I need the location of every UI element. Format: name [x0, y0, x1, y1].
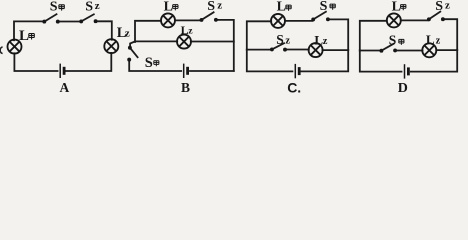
switch S yi (B) dots	[127, 18, 218, 62]
svg-text:S: S	[207, 0, 215, 14]
wire C left edge	[247, 21, 271, 49]
svg-text:z: z	[323, 36, 328, 47]
svg-text:D: D	[398, 81, 408, 96]
lamp L yi (C middle)	[309, 43, 323, 57]
wire B left edge upper	[135, 21, 161, 42]
switch S2 contact dots	[79, 19, 83, 23]
svg-text:L: L	[426, 32, 435, 47]
wire A top-left segment	[14, 21, 44, 40]
wire D top middle	[401, 19, 428, 21]
wire A bottom-right	[66, 53, 111, 71]
lamp L jia (C top)	[271, 14, 285, 28]
wire B middle branch right	[191, 41, 234, 43]
svg-text:L: L	[277, 0, 286, 15]
lamp L yi (D middle)	[422, 43, 436, 57]
wire C bottom-left	[247, 50, 293, 72]
svg-text:C.: C.	[287, 80, 301, 96]
wire A top-right segment	[96, 21, 112, 39]
switch S jia (C) dots	[270, 17, 330, 51]
wire D top-right	[444, 19, 458, 50]
wire B top middle	[175, 19, 201, 21]
svg-text:S: S	[435, 0, 443, 14]
svg-text:S: S	[145, 55, 153, 71]
svg-text:z: z	[436, 35, 441, 46]
wire B top-right	[217, 20, 234, 71]
switch S1 (S jia) blade	[44, 14, 56, 21]
wire between switches	[59, 21, 81, 23]
switch S yi (B top) blade	[202, 12, 214, 20]
wire D right edge lower / bottom	[411, 50, 457, 72]
wire C middle branch left	[247, 49, 271, 51]
svg-text:S: S	[85, 0, 93, 15]
svg-text:A: A	[60, 80, 70, 95]
wire C top middle	[285, 20, 313, 22]
wire B lower-left	[129, 60, 181, 71]
switch S jia (D mid) blade	[381, 44, 393, 51]
svg-text:S: S	[389, 33, 397, 48]
stray page-margin mark	[0, 47, 2, 54]
switch S yi (C mid) blade	[272, 43, 284, 49]
switch S jia (B left) blade	[130, 48, 138, 58]
svg-text:z: z	[217, 0, 222, 11]
svg-text:z: z	[125, 28, 130, 40]
switch S yi (C) dots	[270, 47, 274, 51]
wire D bottom-left	[360, 51, 402, 72]
svg-text:z: z	[285, 36, 290, 47]
wire C middle right of lamp	[322, 49, 348, 51]
wire B middle branch left	[135, 40, 177, 42]
wire C right edge lower / bottom	[301, 50, 348, 72]
svg-text:L: L	[392, 0, 401, 14]
switch S jia (D) dots	[379, 49, 383, 53]
wire B bottom-right	[190, 70, 234, 72]
lamp L yi (B middle)	[177, 35, 191, 49]
lamp L1 (L jia) circuit A left	[8, 40, 22, 54]
wire D middle right of lamp	[436, 49, 457, 51]
svg-text:S: S	[50, 0, 58, 15]
wire D middle to lamp	[396, 50, 423, 52]
switch S jia (C top) blade	[313, 12, 326, 20]
wire D left edge	[360, 21, 387, 51]
svg-text:z: z	[445, 0, 450, 11]
svg-text:z: z	[188, 26, 193, 36]
battery C	[295, 64, 299, 78]
battery D	[405, 64, 409, 78]
switch S2 (S yi) blade	[81, 14, 94, 21]
svg-text:L: L	[19, 28, 29, 44]
battery B	[184, 64, 188, 78]
wire C middle to lamp	[286, 49, 309, 51]
battery A	[60, 64, 64, 78]
wire B left jog to switch	[130, 41, 135, 47]
svg-text:z: z	[95, 0, 100, 12]
wire A left-bottom	[14, 53, 57, 71]
wire D middle branch left	[360, 50, 381, 52]
svg-text:S: S	[276, 32, 284, 47]
switch S yi (D top) blade	[429, 12, 440, 20]
switch S1 contact dots	[42, 19, 97, 23]
lamp L2 (L yi) circuit A right	[104, 39, 118, 53]
switch S yi (D) dots	[379, 17, 444, 52]
lamp L jia (B top)	[161, 13, 175, 27]
wire C top-right	[329, 19, 349, 50]
lamp L jia (D top)	[387, 13, 401, 27]
svg-text:B: B	[181, 80, 190, 95]
svg-text:L: L	[164, 0, 173, 14]
switch S jia (B) dots	[128, 46, 132, 50]
svg-text:S: S	[320, 0, 328, 14]
